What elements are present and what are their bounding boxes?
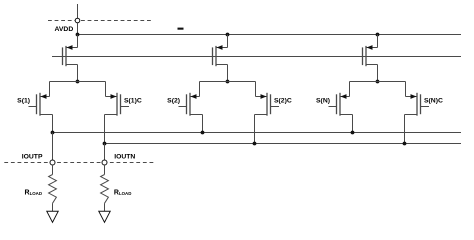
wire drain of S(1) to IOUTP rail: [40, 114, 53, 116]
node tail of cell 2: [226, 80, 230, 84]
junction S(1)C drain on IOUTN rail: [103, 142, 107, 146]
junction AVDD rail cell N: [376, 33, 380, 37]
wire source of Q2 to AVDD: [227, 35, 229, 48]
wire tail to source of switch S(2)C: [255, 82, 257, 97]
transistor switch S(2) PMOS: [179, 93, 197, 116]
transistor Q1 PMOS current source: [63, 45, 73, 66]
wire IOUTP terminal to resistor: [52, 165, 54, 175]
wire source of QN to AVDD: [377, 35, 379, 48]
wire drain of S(N) to IOUTP rail: [340, 114, 353, 116]
transistor switch S(N) PMOS: [329, 93, 347, 116]
wire drain of S(2) to IOUTP rail: [190, 114, 203, 116]
transistor switch S(2)C PMOS: [261, 93, 280, 116]
svg-text:IOUTP: IOUTP: [22, 153, 43, 160]
boundary dashed line chip edge: [4, 162, 155, 164]
transistor QN PMOS current source: [363, 45, 373, 66]
junction S(2) drain on IOUTP rail: [201, 131, 205, 135]
wire IOUTP output drop: [52, 133, 54, 161]
wire tail to source of switch S(N)C: [405, 82, 407, 97]
svg-text:S(1)C: S(1)C: [124, 97, 142, 104]
ground symbol N side: [99, 211, 110, 222]
wire drain of S(N)C to IOUTN rail: [405, 114, 418, 116]
junction S(N)C drain on IOUTN rail: [403, 142, 407, 146]
junction S(1) drain on IOUTP rail: [51, 131, 55, 135]
wire drain of S(1)C to IOUTN rail: [105, 114, 118, 116]
wire gate bias rail: [52, 56, 461, 58]
wire IOUTN output drop: [104, 144, 106, 161]
transistor switch S(1)C PMOS: [111, 93, 130, 116]
svg-text:S(1): S(1): [17, 97, 30, 104]
wire IOUTN rail: [105, 143, 462, 145]
wire source of Q1 to AVDD: [77, 35, 79, 48]
svg-text:S(2): S(2): [167, 97, 180, 104]
wire tail to source of switch S(1): [49, 82, 51, 97]
svg-text:RLOAD: RLOAD: [25, 189, 43, 196]
wire tail to source of switch S(N): [349, 82, 351, 97]
transistor Q2 PMOS current source: [213, 45, 223, 66]
wire tail to source of switch S(2): [199, 82, 201, 97]
junction S(2)C drain on IOUTN rail: [253, 142, 257, 146]
wire IOUTP rail: [53, 132, 462, 134]
svg-text:S(N)C: S(N)C: [424, 97, 443, 104]
wire resistor to ground N side: [104, 203, 106, 211]
node AVDD terminal: [48, 20, 153, 22]
wire drain of Q1 to tail node: [66, 64, 78, 66]
wire drain of Q2 to tail node: [216, 64, 228, 66]
wire tail to source of switch S(1)C: [105, 82, 107, 97]
ellipsis dash between cells: [178, 28, 184, 30]
svg-text:S(N): S(N): [316, 97, 330, 104]
svg-text:RLOAD: RLOAD: [114, 189, 132, 196]
node tail of cell N: [376, 80, 380, 84]
resistor RLOAD P side: [49, 175, 57, 204]
wire drain of S(2)C to IOUTN rail: [255, 114, 268, 116]
junction S(N) drain on IOUTP rail: [351, 131, 355, 135]
transistor switch S(1) PMOS: [29, 93, 47, 116]
wire drain of QN to tail node: [366, 64, 378, 66]
wire IOUTN terminal to resistor: [104, 165, 106, 175]
junction AVDD rail cell 1: [76, 33, 80, 37]
svg-text:S(2)C: S(2)C: [274, 97, 292, 104]
node tail of cell 1: [76, 80, 80, 84]
wire resistor to ground P side: [52, 203, 54, 211]
wire AVDD supply stub: [77, 4, 79, 18]
wire AVDD rail: [78, 34, 462, 36]
transistor switch S(N)C PMOS: [411, 93, 430, 116]
wire tail rail cell 1: [50, 81, 106, 83]
ground symbol P side: [47, 211, 58, 222]
resistor RLOAD N side: [101, 175, 109, 204]
junction AVDD rail cell 2: [226, 33, 230, 37]
wire tail rail cell N: [350, 81, 406, 83]
wire AVDD terminal to rail: [77, 23, 79, 35]
node IOUTP terminal: [50, 160, 55, 165]
wire tail rail cell 2: [200, 81, 256, 83]
node IOUTN terminal: [102, 160, 107, 165]
svg-text:IOUTN: IOUTN: [114, 153, 135, 160]
svg-text:AVDD: AVDD: [55, 26, 74, 33]
